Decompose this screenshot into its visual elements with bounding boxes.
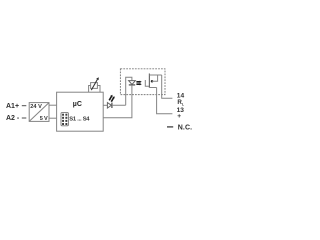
body tap wire [152, 75, 158, 81]
svg-text:N.C.: N.C. [178, 125, 192, 132]
svg-text:RL: RL [177, 99, 184, 106]
svg-text:S1 ... S4: S1 ... S4 [69, 116, 90, 122]
photoMOS transistor Q1 gate [145, 80, 149, 86]
converter diagonal [29, 103, 49, 122]
optocoupler LED [129, 81, 136, 85]
wire to terminal 14 [162, 75, 173, 98]
status LED D1 [107, 103, 112, 108]
trimmer potentiometer R1 [89, 77, 100, 92]
wire uC to status LED [103, 104, 107, 106]
wire to terminal 13 [157, 88, 173, 114]
wire A2 stub [22, 117, 27, 119]
optocoupler emission arrows [136, 81, 141, 86]
microcontroller U2 box [57, 92, 104, 131]
LED emission arrows [109, 95, 115, 102]
power converter U1 box 24V/5V [29, 103, 49, 122]
svg-text:A2 -: A2 - [6, 115, 20, 122]
svg-text:24 V: 24 V [30, 104, 42, 110]
source arm [149, 87, 156, 89]
wire LED to optocoupler anode [112, 77, 132, 105]
svg-text:+: + [177, 113, 181, 120]
wire converter to uC top [49, 104, 57, 106]
svg-text:5 V: 5 V [40, 116, 48, 122]
photoMOS channel bar [148, 74, 150, 88]
svg-text:µC: µC [73, 101, 82, 108]
body tap junction dot [151, 80, 154, 83]
DIP switch S1-S4 icon [61, 113, 68, 126]
svg-text:A1+: A1+ [6, 103, 19, 110]
N.C. legend dash [167, 126, 173, 128]
wire optocoupler cathode return to uC [103, 85, 132, 118]
optocoupler dashed box U3 [120, 69, 165, 95]
wire A1 stub [22, 105, 27, 107]
wire converter to uC bottom [49, 117, 57, 119]
drain arm [149, 74, 161, 76]
